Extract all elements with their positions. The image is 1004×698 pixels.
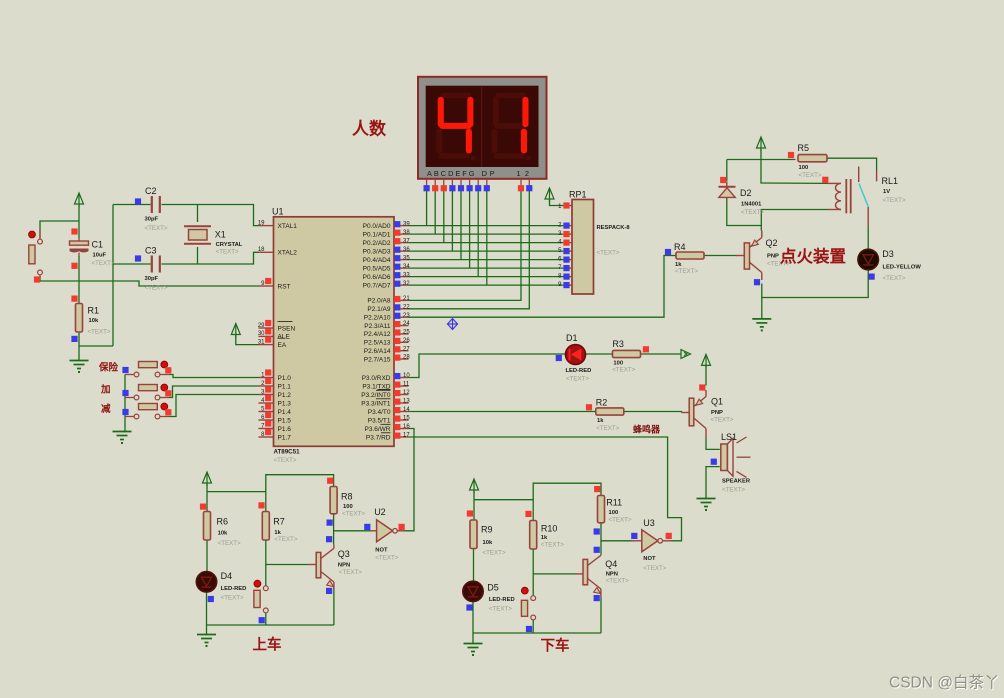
- wire Q4 base: [533, 573, 575, 575]
- wire R1 bottom to ground: [78, 332, 80, 361]
- svg-text:NOT: NOT: [375, 548, 388, 554]
- resistor R3 100: [612, 339, 649, 374]
- wire LS1 bottom to ground: [706, 467, 720, 499]
- svg-text:32: 32: [403, 281, 410, 287]
- ground GND sc2: [464, 643, 483, 645]
- push button key shang: [254, 580, 268, 623]
- svg-text:<TEXT>: <TEXT>: [643, 565, 666, 572]
- wire P3.7 to U3 output: [409, 437, 682, 541]
- svg-text:P2.7/A15: P2.7/A15: [364, 356, 391, 363]
- svg-text:ALE: ALE: [278, 334, 291, 341]
- svg-text:P2.0/A8: P2.0/A8: [367, 298, 391, 305]
- ground GND keys: [113, 431, 132, 433]
- wire coil bottom to Q2 emitter: [761, 210, 828, 231]
- svg-text:<TEXT>: <TEXT>: [375, 555, 398, 562]
- svg-text:<TEXT>: <TEXT>: [274, 536, 297, 543]
- wire sc2 bottom rail: [473, 632, 601, 634]
- svg-text:上车: 上车: [253, 636, 282, 654]
- svg-text:LED-YELLOW: LED-YELLOW: [883, 264, 922, 270]
- svg-text:RP1: RP1: [569, 190, 587, 200]
- svg-text:<TEXT>: <TEXT>: [612, 367, 635, 374]
- svg-text:P0.0/AD0: P0.0/AD0: [363, 223, 391, 230]
- resistor R9 10k: [467, 510, 506, 556]
- svg-text:P0.3/AD3: P0.3/AD3: [363, 248, 391, 255]
- svg-text:100: 100: [609, 510, 619, 516]
- wire D4 to rail: [206, 592, 208, 635]
- svg-text:<TEXT>: <TEXT>: [483, 550, 506, 557]
- svg-text:PNP: PNP: [711, 410, 723, 416]
- wire D2 bottom: [727, 198, 762, 226]
- svg-text:C1: C1: [92, 240, 104, 250]
- svg-text:29: 29: [258, 323, 265, 329]
- svg-text:37: 37: [403, 238, 410, 244]
- power flag VCC EA: [231, 324, 240, 335]
- svg-text:X1: X1: [215, 230, 226, 240]
- wire C2 left: [113, 204, 151, 206]
- svg-text:<TEXT>: <TEXT>: [741, 209, 764, 216]
- wire Q3 base: [266, 564, 309, 566]
- ground GND LS1: [697, 498, 716, 500]
- wire key1 to P1.0: [169, 375, 259, 378]
- svg-text:<TEXT>: <TEXT>: [145, 225, 168, 232]
- svg-text:PSEN: PSEN: [278, 325, 296, 332]
- svg-text:U1: U1: [272, 207, 284, 217]
- inverter U2 NOT: [364, 507, 405, 562]
- svg-text:39: 39: [403, 221, 410, 227]
- svg-text:R7: R7: [273, 517, 285, 527]
- svg-text:23: 23: [403, 313, 410, 319]
- svg-text:P3.2/INT0: P3.2/INT0: [361, 392, 391, 399]
- svg-text:R1: R1: [88, 306, 100, 316]
- svg-text:R11: R11: [606, 498, 622, 508]
- svg-text:LED-RED: LED-RED: [489, 597, 515, 603]
- svg-text:下车: 下车: [541, 637, 570, 655]
- svg-text:13: 13: [403, 399, 410, 405]
- transistor Q1 PNP: [682, 384, 734, 438]
- transistor Q2 PNP: [736, 231, 790, 286]
- svg-text:R3: R3: [612, 339, 624, 349]
- wire P0.5 bus: [409, 267, 564, 269]
- push button key jian: [101, 403, 171, 419]
- wire gnd branch: [79, 345, 113, 347]
- transistor Q3 NPN: [309, 544, 362, 594]
- wire RST row: [40, 276, 259, 287]
- svg-text:25: 25: [403, 330, 410, 336]
- svg-text:NOT: NOT: [643, 556, 656, 562]
- svg-text:R8: R8: [341, 492, 353, 502]
- wire P0.0 bus: [409, 225, 564, 227]
- svg-text:P2.2/A10: P2.2/A10: [364, 315, 391, 322]
- wire X1 top: [197, 205, 199, 223]
- power flag VCC relay: [757, 137, 766, 148]
- svg-text:1k: 1k: [597, 418, 604, 424]
- svg-text:<TEXT>: <TEXT>: [339, 569, 362, 576]
- svg-text:P1.7: P1.7: [278, 434, 292, 441]
- svg-text:<TEXT>: <TEXT>: [883, 275, 906, 282]
- svg-text:<TEXT>: <TEXT>: [566, 376, 589, 383]
- wire R10 top: [532, 500, 534, 521]
- svg-text:<TEXT>: <TEXT>: [541, 542, 564, 549]
- svg-text:18: 18: [258, 247, 265, 253]
- capacitor C1 electrolytic: [70, 228, 115, 269]
- svg-text:U2: U2: [374, 507, 386, 517]
- speaker LS1: [711, 432, 751, 494]
- wire sc1 bottom rail: [207, 624, 334, 626]
- svg-text:10k: 10k: [483, 540, 493, 546]
- svg-text:P3.6/WR: P3.6/WR: [364, 426, 390, 433]
- svg-text:P1.3: P1.3: [278, 400, 292, 407]
- capacitor C3: [135, 246, 168, 292]
- svg-text:P0.6/AD6: P0.6/AD6: [363, 274, 391, 281]
- wire R7 top: [265, 492, 267, 512]
- svg-text:P3.5/T1: P3.5/T1: [368, 417, 391, 424]
- svg-text:人数: 人数: [352, 119, 387, 139]
- svg-text:14: 14: [403, 407, 410, 413]
- wire keys common: [122, 375, 125, 432]
- svg-text:R5: R5: [798, 143, 810, 153]
- svg-text:22: 22: [403, 305, 410, 311]
- wire D2 down: [726, 160, 728, 182]
- node marker: [448, 319, 458, 330]
- wire P0.1 bus: [409, 233, 564, 235]
- resistor R8 100: [327, 478, 365, 518]
- svg-text:P1.6: P1.6: [278, 426, 292, 433]
- wire R8 node: [333, 514, 335, 545]
- svg-text:<TEXT>: <TEXT>: [218, 540, 241, 547]
- svg-text:10k: 10k: [218, 531, 228, 537]
- svg-text:R6: R6: [217, 517, 229, 527]
- wire relay pole to D3: [867, 226, 869, 249]
- svg-text:100: 100: [343, 504, 353, 510]
- svg-text:LED-RED: LED-RED: [221, 586, 247, 592]
- push button SW1 reset: [29, 231, 43, 283]
- svg-text:<TEXT>: <TEXT>: [145, 285, 168, 292]
- svg-text:R10: R10: [541, 524, 558, 534]
- wire P3.0 to D1: [409, 354, 566, 378]
- svg-text:38: 38: [403, 230, 410, 236]
- wire D5 to rail: [472, 602, 474, 644]
- wire R5 right to relay contact: [827, 158, 877, 170]
- svg-text:P0.1/AD1: P0.1/AD1: [363, 231, 391, 238]
- ground GND Q2: [752, 318, 771, 320]
- svg-text:SPEAKER: SPEAKER: [722, 479, 751, 485]
- svg-text:加: 加: [100, 384, 111, 396]
- svg-text:35: 35: [403, 255, 410, 261]
- wire P2.2 to R4: [409, 256, 665, 318]
- svg-text:<TEXT>: <TEXT>: [883, 197, 906, 204]
- node R8 bottom: [327, 520, 333, 526]
- wire P0.6 bus: [409, 276, 564, 278]
- svg-text:EA: EA: [278, 342, 287, 349]
- wire display seg E drop: [460, 191, 462, 260]
- wire C2/C3 common: [112, 205, 114, 347]
- svg-text:<TEXT>: <TEXT>: [221, 595, 244, 602]
- svg-text:<TEXT>: <TEXT>: [609, 517, 632, 524]
- svg-text:P3.4/T0: P3.4/T0: [368, 409, 391, 416]
- wire P3.6 to U2 output: [405, 429, 415, 531]
- svg-text:30: 30: [258, 331, 265, 337]
- resistor R7 1k: [258, 502, 297, 543]
- ground GND1: [70, 360, 89, 362]
- wire P0.7 bus: [409, 284, 564, 286]
- svg-text:1k: 1k: [541, 535, 548, 541]
- svg-text:P2.3/A11: P2.3/A11: [364, 323, 391, 330]
- wire C3 left: [113, 263, 151, 265]
- svg-text:D4: D4: [221, 571, 233, 581]
- push button key baoxian: [98, 361, 171, 377]
- power flag VCC reset: [75, 193, 84, 204]
- wire U2 input: [334, 530, 371, 532]
- svg-text:16: 16: [403, 424, 410, 430]
- svg-text:<TEXT>: <TEXT>: [799, 172, 822, 179]
- svg-text:点火装置: 点火装置: [780, 246, 846, 266]
- svg-text:30pF: 30pF: [145, 217, 159, 223]
- svg-text:Q1: Q1: [711, 397, 723, 407]
- svg-text:34: 34: [403, 264, 410, 270]
- wire R4 leads: [664, 255, 676, 257]
- svg-text:P0.2/AD2: P0.2/AD2: [363, 240, 391, 247]
- wire R2 to Q1 base: [624, 412, 682, 413]
- resistor R5 100: [788, 143, 827, 179]
- wire Q4 emitter down: [600, 597, 602, 633]
- svg-text:P1.1: P1.1: [278, 383, 292, 390]
- svg-text:LS1: LS1: [721, 432, 737, 442]
- relay RL1: [822, 167, 906, 227]
- svg-text:P2.4/A12: P2.4/A12: [364, 331, 391, 338]
- diode D2 1N4001: [719, 177, 765, 216]
- svg-text:RST: RST: [278, 283, 291, 290]
- resistor R6 10k: [200, 504, 241, 548]
- svg-text:<TEXT>: <TEXT>: [597, 250, 620, 257]
- svg-text:Q4: Q4: [605, 559, 617, 569]
- wire sc2 branch: [474, 483, 601, 500]
- svg-text:100: 100: [613, 360, 623, 366]
- capacitor C2: [135, 186, 168, 232]
- svg-text:31: 31: [258, 339, 265, 345]
- svg-text:19: 19: [258, 220, 265, 226]
- svg-text:26: 26: [403, 338, 410, 344]
- svg-text:P2.1/A9: P2.1/A9: [367, 306, 391, 313]
- wire R9 to D5: [473, 549, 475, 582]
- power flag VCC sc1: [203, 472, 212, 483]
- LED D5 LED-RED: [463, 581, 515, 612]
- resistor R1 10k: [71, 296, 111, 343]
- svg-text:CSDN @白茶丫: CSDN @白茶丫: [889, 674, 999, 692]
- svg-text:P3.0/RXD: P3.0/RXD: [362, 375, 391, 382]
- inverter U3 NOT: [631, 518, 672, 572]
- resistor R4 1k: [665, 242, 704, 275]
- resistor R10 1k: [525, 511, 564, 549]
- svg-text:<TEXT>: <TEXT>: [342, 511, 365, 518]
- svg-text:1N4001: 1N4001: [741, 202, 762, 208]
- wire VCC to SW1 top: [40, 221, 79, 239]
- svg-text:<TEXT>: <TEXT>: [489, 606, 512, 613]
- wire key3 to P1.2: [169, 395, 259, 417]
- wire digit2 drop to P2.1: [409, 191, 530, 309]
- ground GND sc1: [197, 634, 216, 636]
- svg-text:D1: D1: [566, 333, 578, 343]
- svg-text:15: 15: [403, 416, 410, 422]
- wire P0.2 bus: [409, 242, 564, 244]
- svg-text:<TEXT>: <TEXT>: [92, 260, 115, 267]
- svg-text:D5: D5: [487, 583, 499, 593]
- svg-text:30pF: 30pF: [145, 276, 159, 282]
- svg-text:D2: D2: [740, 188, 752, 198]
- wire Q1 collector to LS1: [706, 439, 720, 450]
- wire R7 bottom to key: [265, 540, 267, 586]
- svg-text:33: 33: [403, 272, 410, 278]
- svg-text:28: 28: [403, 355, 410, 361]
- power flag VCC sc2: [470, 479, 479, 490]
- svg-text:P0.4/AD4: P0.4/AD4: [363, 257, 391, 264]
- svg-text:R2: R2: [596, 398, 608, 408]
- wire key2 to P1.1: [169, 386, 259, 398]
- svg-text:CRYSTAL: CRYSTAL: [216, 242, 243, 248]
- svg-text:U3: U3: [643, 518, 655, 528]
- svg-text:Q2: Q2: [766, 238, 778, 248]
- svg-text:P3.7/RD: P3.7/RD: [366, 434, 391, 441]
- svg-text:P2.5/A13: P2.5/A13: [364, 340, 391, 347]
- wire display seg DP drop: [486, 191, 488, 286]
- svg-text:36: 36: [403, 247, 410, 253]
- svg-text:P2.6/A14: P2.6/A14: [364, 348, 391, 355]
- wire C1 bottom to RST: [78, 256, 80, 281]
- svg-text:17: 17: [403, 433, 410, 439]
- wire RST to R1 top: [78, 281, 80, 304]
- resistor R11 100: [594, 486, 632, 524]
- wire display seg A drop: [426, 191, 428, 226]
- svg-text:<TEXT>: <TEXT>: [675, 268, 698, 275]
- svg-text:<TEXT>: <TEXT>: [596, 425, 619, 432]
- svg-text:R4: R4: [674, 242, 686, 252]
- wire Q3 emitter down: [333, 587, 335, 625]
- svg-text:RL1: RL1: [882, 176, 899, 186]
- wire sc2 key bottom: [532, 620, 534, 633]
- wire D2 top branch: [727, 159, 796, 161]
- svg-text:24: 24: [403, 321, 410, 327]
- svg-text:27: 27: [403, 346, 410, 352]
- svg-text:100: 100: [799, 165, 809, 171]
- svg-text:<TEXT>: <TEXT>: [722, 487, 745, 494]
- wire P3.4 to R2: [409, 411, 596, 413]
- svg-text:P3.3/INT1: P3.3/INT1: [361, 400, 391, 407]
- wire X1 bottom: [197, 247, 199, 264]
- svg-text:P0.5/AD5: P0.5/AD5: [363, 265, 391, 272]
- svg-text:蜂鸣器: 蜂鸣器: [633, 424, 661, 435]
- svg-text:C2: C2: [145, 186, 157, 196]
- transistor Q4 NPN: [576, 555, 630, 601]
- op-amp U1 AT89C51 MCU: [258, 207, 411, 464]
- node R11 bottom: [594, 528, 600, 534]
- wire Q2 collector to ground rail: [762, 270, 868, 298]
- LED D3 LED-YELLOW: [858, 249, 921, 282]
- svg-text:P1.2: P1.2: [278, 392, 292, 399]
- wire display seg D drop: [451, 191, 453, 252]
- svg-text:<TEXT>: <TEXT>: [88, 329, 111, 336]
- svg-text:C3: C3: [145, 246, 157, 256]
- svg-text:10: 10: [403, 373, 410, 379]
- wire C3 right to XTAL2: [162, 252, 259, 264]
- svg-text:RESPACK-8: RESPACK-8: [597, 225, 631, 231]
- svg-text:P1.0: P1.0: [278, 375, 292, 382]
- wire D1 to R3: [586, 353, 613, 355]
- svg-text:XTAL1: XTAL1: [278, 223, 298, 230]
- svg-text:12: 12: [403, 390, 410, 396]
- svg-text:R9: R9: [481, 525, 493, 535]
- push button key jia: [100, 384, 171, 400]
- resistor pack RP1 RESPACK-8: [558, 190, 630, 295]
- wire P0.3 bus: [409, 250, 564, 252]
- resistor R2 1k: [586, 398, 624, 433]
- crystal X1: [184, 226, 243, 255]
- svg-text:P1.4: P1.4: [278, 409, 292, 416]
- power flag VCC RP1: [545, 188, 554, 199]
- svg-text:Q3: Q3: [338, 549, 350, 559]
- wire sc1 key bottom: [265, 613, 267, 625]
- power flag VCC Q1: [702, 354, 711, 365]
- svg-text:<TEXT>: <TEXT>: [711, 417, 734, 424]
- LED D4 LED-RED: [196, 571, 246, 602]
- svg-text:XTAL2: XTAL2: [278, 250, 298, 257]
- svg-text:P1.5: P1.5: [278, 417, 292, 424]
- svg-text:减: 减: [101, 403, 111, 415]
- svg-text:11: 11: [403, 382, 410, 388]
- wire display seg C drop: [443, 191, 445, 243]
- push button key xia: [521, 587, 535, 632]
- wire R10 bottom to key: [532, 549, 534, 596]
- wire display seg G drop: [477, 191, 479, 277]
- svg-text:<TEXT>: <TEXT>: [216, 249, 239, 256]
- wire P0.4 bus: [409, 259, 564, 261]
- wire R3 to arrow: [641, 353, 681, 355]
- wire ground tap Q2: [761, 298, 763, 319]
- svg-text:21: 21: [403, 296, 410, 302]
- svg-text:保险: 保险: [98, 362, 119, 374]
- svg-text:P0.7/AD7: P0.7/AD7: [363, 282, 391, 289]
- arrow terminal: [681, 350, 691, 359]
- LED D1 LED-RED lit: [556, 333, 592, 383]
- wire R6 to D4: [206, 540, 208, 572]
- svg-text:D3: D3: [882, 249, 894, 259]
- wire sc1 branch: [207, 475, 334, 492]
- wire U3 input: [601, 540, 632, 542]
- svg-text:NPN: NPN: [338, 563, 350, 569]
- svg-text:AT89C51: AT89C51: [274, 449, 301, 456]
- svg-text:10k: 10k: [89, 318, 99, 324]
- svg-text:10uF: 10uF: [93, 253, 107, 259]
- 7-segment display 2-digit showing 41: [418, 77, 547, 192]
- wire display seg B drop: [434, 191, 436, 235]
- wire display seg F drop: [469, 191, 471, 269]
- svg-text:<TEXT>: <TEXT>: [606, 578, 629, 585]
- svg-text:<TEXT>: <TEXT>: [274, 457, 297, 464]
- svg-text:1V: 1V: [883, 189, 890, 195]
- wire R11 node: [600, 522, 602, 555]
- svg-text:PNP: PNP: [767, 254, 779, 260]
- wire C2 right to XTAL1: [162, 205, 259, 226]
- wire digit1 drop to P2.0: [409, 191, 522, 301]
- svg-text:LED-RED: LED-RED: [566, 368, 592, 374]
